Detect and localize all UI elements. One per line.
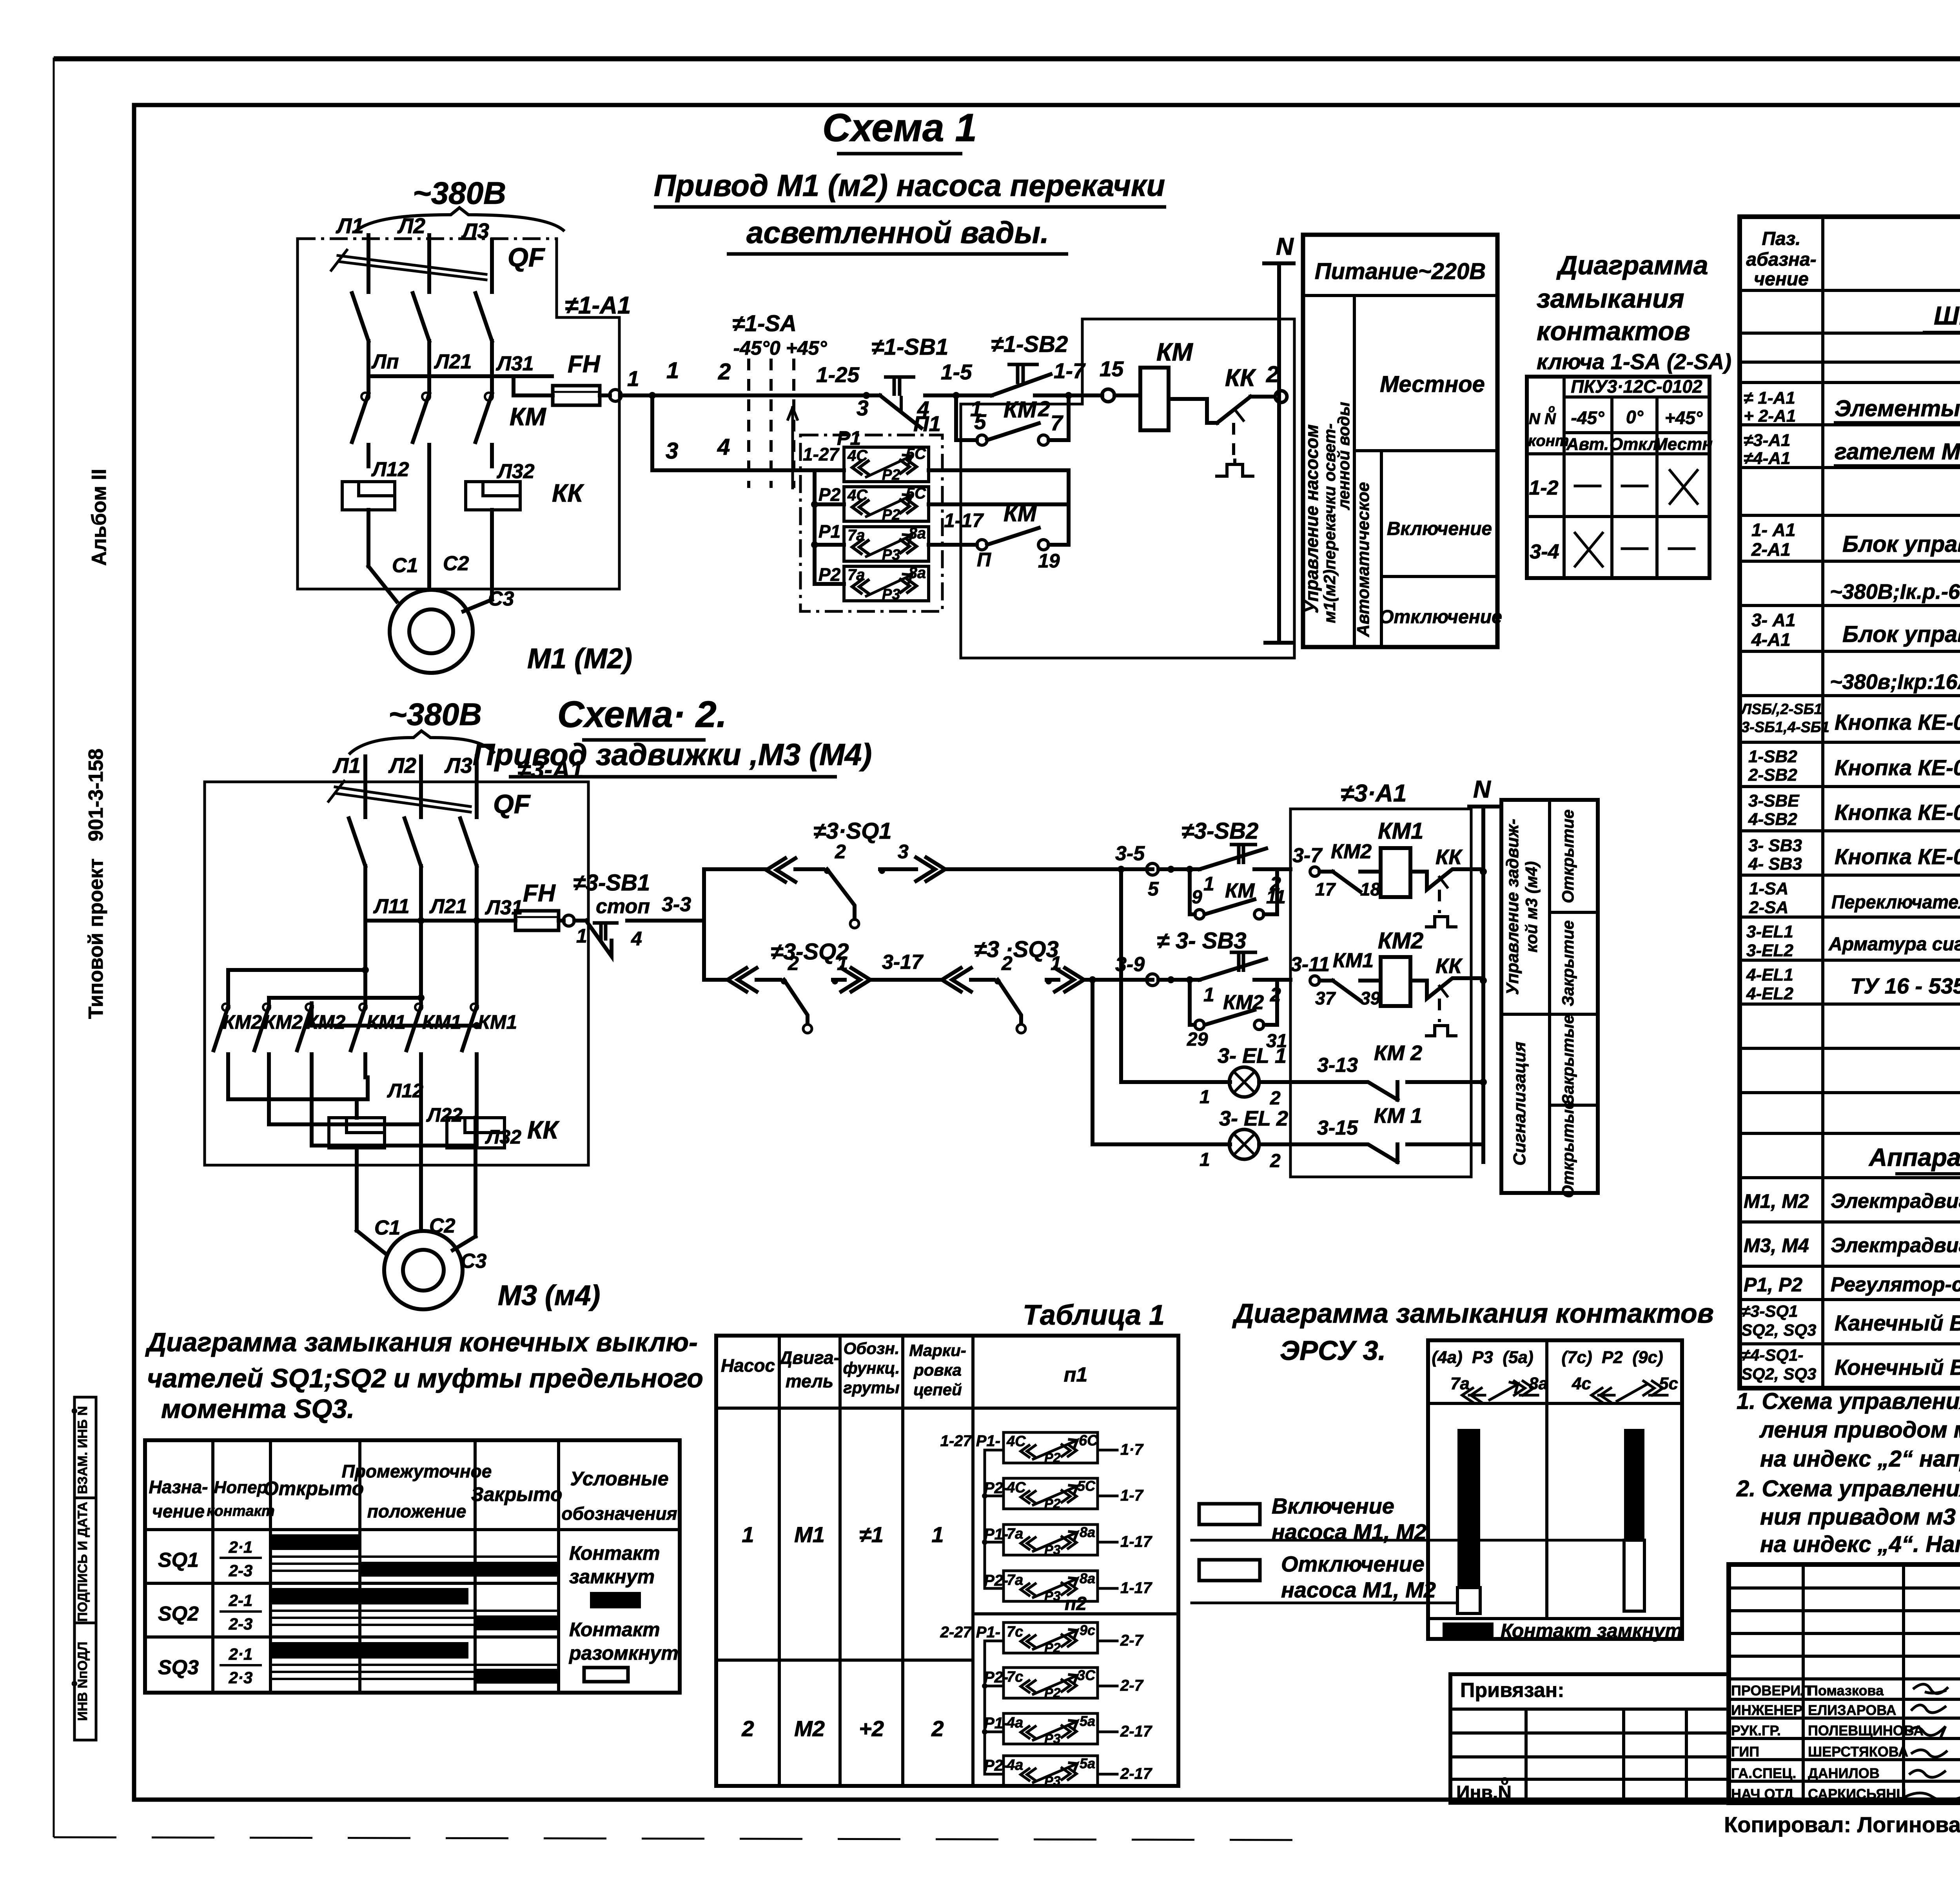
svg-text:1: 1 (576, 925, 587, 947)
svg-text:Л1: Л1 (336, 214, 364, 238)
signatures (squiggles) (1905, 1684, 1960, 1800)
svg-text:контакт: контакт (207, 1503, 274, 1519)
svg-text:ленной воды: ленной воды (1334, 402, 1353, 510)
row: limit switch 4 (1741, 1346, 1960, 1383)
svg-text:на индекс „2“ например: 1·25 н: на индекс „2“ например: 1·25 на 2·25. (1760, 1446, 1960, 1472)
svg-text:19: 19 (1038, 550, 1060, 572)
Table1 P1 contact row3 (984, 1524, 1152, 1557)
svg-text:3-11: 3-11 (1290, 953, 1330, 976)
svg-text:Р2: Р2 (818, 564, 841, 585)
svg-text:ШЕРСТЯКОВА: ШЕРСТЯКОВА (1808, 1744, 1908, 1760)
svg-text:FН: FН (568, 351, 601, 378)
svg-text:на индекс „4“. Например: „3-5“: на индекс „4“. Например: „3-5“ на „4-5.“ (1760, 1532, 1960, 1557)
svg-text:ТУ 16 - 535 - 681- 76: ТУ 16 - 535 - 681- 76 (1850, 973, 1960, 998)
svg-text:(7с) Р2 (9с): (7с) Р2 (9с) (1561, 1348, 1663, 1367)
svg-text:Р1: Р1 (818, 521, 840, 542)
bus with labels Lp L21 L31 (368, 350, 552, 376)
svg-text:1-17: 1-17 (1120, 1579, 1152, 1597)
svg-text:1: 1 (1203, 984, 1214, 1006)
svg-text:3С: 3С (1077, 1667, 1096, 1683)
svg-text:3-4: 3-4 (1530, 540, 1559, 563)
contactor KM1 contacts (power, forward) (351, 1004, 517, 1077)
Schema 1 title (654, 106, 1166, 254)
svg-text:М1, М2: М1, М2 (1744, 1190, 1809, 1212)
svg-text:≠1-SА: ≠1-SА (732, 311, 797, 336)
svg-text:Р2: Р2 (818, 484, 841, 505)
terminal 15 (1072, 357, 1124, 402)
svg-text:цепей: цепей (913, 1380, 962, 1399)
svg-text:ЭРСУ 3.: ЭРСУ 3. (1280, 1335, 1386, 1366)
motor M3(M4) (357, 1148, 600, 1311)
svg-text:1-17: 1-17 (1120, 1533, 1152, 1550)
contactor coil KM2 (1378, 928, 1423, 1006)
svg-text:≠3-SВ1: ≠3-SВ1 (573, 870, 650, 896)
svg-text:2-17: 2-17 (1120, 1723, 1152, 1740)
svg-text:~380В: ~380В (388, 697, 482, 732)
svg-text:М2: М2 (794, 1716, 825, 1741)
svg-text:КК: КК (552, 479, 584, 507)
signal lamp 3-EL1 (1118, 866, 1358, 1109)
svg-text:2·1: 2·1 (229, 1645, 253, 1663)
svg-text:Блок управления РБУ 5101-13Б2Г: Блок управления РБУ 5101-13Б2Г (1842, 531, 1960, 557)
svg-text:QF: QF (508, 243, 545, 272)
svg-text:Л1: Л1 (332, 753, 361, 778)
svg-text:Л2: Л2 (397, 214, 426, 238)
svg-text:Закрытие: Закрытие (1559, 920, 1577, 1006)
svg-text:Элементы управления электрадви: Элементы управления электрадви- (1835, 396, 1960, 421)
svg-text:≠3·SQ1: ≠3·SQ1 (813, 818, 891, 844)
thermal relay KK heaters s2 (329, 1116, 559, 1148)
P1 left bus wire (800, 470, 844, 584)
thermal contact KK (s2 top) (1410, 845, 1483, 927)
contactor KM main contacts (352, 378, 546, 466)
svg-text:≠1-SВ1: ≠1-SВ1 (871, 334, 948, 360)
svg-text:асветленной вады.: асветленной вады. (746, 215, 1049, 250)
svg-text:Марки-: Марки- (909, 1341, 966, 1360)
svg-text:КМ 1: КМ 1 (1374, 1104, 1422, 1128)
limit switch diagram table (145, 1440, 680, 1693)
svg-text:Л3: Л3 (444, 753, 472, 778)
svg-text:2: 2 (1266, 362, 1279, 387)
svg-text:8а: 8а (1080, 1570, 1095, 1586)
svg-text:Местн: Местн (1653, 435, 1713, 454)
kopiroval / format (1724, 1812, 1960, 1847)
svg-text:7с: 7с (1007, 1624, 1023, 1640)
svg-text:3-SВЕ: 3-SВЕ (1748, 791, 1800, 810)
svg-text:Р3: Р3 (1044, 1774, 1061, 1789)
branch to KM2 coil (1290, 949, 1381, 1008)
svg-text:Л2: Л2 (388, 753, 417, 778)
neutral line N schema2 (1469, 776, 1497, 1162)
svg-text:Насос: Насос (721, 1355, 775, 1376)
svg-text:Кнопка КЕ-011У3 Исп.24,ТУ16-52: Кнопка КЕ-011У3 Исп.24,ТУ16-526.407-76 (1835, 755, 1960, 780)
node L3 s2 (444, 753, 477, 780)
svg-text:1: 1 (1200, 1149, 1210, 1170)
svg-text:Р2: Р2 (1044, 1450, 1061, 1465)
svg-text:ровка: ровка (913, 1361, 962, 1379)
thermal contact KK (s2 bottom) (1410, 954, 1483, 1036)
node L2 (397, 214, 429, 259)
svg-text:≠ 3- SВ3: ≠ 3- SВ3 (1157, 928, 1246, 954)
svg-text:Диаграмма: Диаграмма (1556, 250, 1708, 280)
row: regulator ERSU (1744, 1271, 1960, 1296)
svg-text:1: 1 (837, 952, 848, 974)
svg-text:ГИП: ГИП (1731, 1744, 1759, 1760)
svg-text:8а: 8а (1080, 1524, 1095, 1540)
svg-text:КК: КК (1225, 364, 1256, 392)
Table1 P2 contact row3 (984, 1713, 1152, 1746)
svg-text:С3: С3 (461, 1250, 487, 1273)
svg-text:чение: чение (1754, 269, 1809, 290)
svg-text:Кнопка КЕ-011У3 Исп.23,ТУ16-52: Кнопка КЕ-011У3 Исп.23,ТУ16-526.407-76 (1835, 710, 1960, 734)
svg-text:2·1: 2·1 (229, 1538, 253, 1556)
svg-text:КМ2: КМ2 (263, 1011, 303, 1033)
svg-text:(4а) Р3 (5а): (4а) Р3 (5а) (1432, 1348, 1533, 1367)
legend open contact (568, 1619, 679, 1682)
svg-text:SQ3: SQ3 (158, 1656, 199, 1679)
svg-text:Р3: Р3 (882, 547, 900, 563)
start button 3-SB2 (1181, 818, 1290, 895)
svg-text:РУК.ГР.: РУК.ГР. (1731, 1722, 1781, 1738)
svg-text:1-17: 1-17 (944, 509, 984, 531)
svg-text:SQ2, SQ3: SQ2, SQ3 (1741, 1321, 1816, 1340)
svg-text:Л21: Л21 (429, 895, 467, 918)
svg-text:момента SQ3.: момента SQ3. (161, 1394, 354, 1424)
svg-text:Открытие: Открытие (1559, 809, 1577, 903)
svg-text:КК: КК (1436, 845, 1463, 869)
branch to KM1 coil (1292, 840, 1381, 899)
svg-text:Кнопка КЕ-011У3 Исп.27, ТУ16-5: Кнопка КЕ-011У3 Исп.27, ТУ16-526.407-76 (1835, 800, 1960, 825)
row: RBU 5401 block (1751, 610, 1960, 650)
svg-text:ИНЖЕНЕР: ИНЖЕНЕР (1731, 1702, 1802, 1718)
svg-text:Контакт замкнут: Контакт замкнут (1501, 1620, 1682, 1642)
svg-text:SQ2, SQ3: SQ2, SQ3 (1741, 1365, 1816, 1383)
svg-text:Привод М1 (м2) насоса перекачк: Привод М1 (м2) насоса перекачки (654, 168, 1165, 203)
svg-text:≠4-SQ1-: ≠4-SQ1- (1741, 1346, 1803, 1365)
svg-text:Л12: Л12 (387, 1080, 423, 1102)
svg-text:3: 3 (666, 438, 678, 464)
signal lamp 3-EL2 (1089, 976, 1358, 1171)
svg-text:3-17: 3-17 (882, 951, 924, 973)
svg-text:2: 2 (931, 1716, 944, 1741)
svg-text:2-SВ2: 2-SВ2 (1748, 765, 1797, 785)
svg-text:Диаграмма замыкания конечных в: Диаграмма замыкания конечных выклю- (145, 1327, 698, 1357)
notes text (1736, 1389, 1960, 1557)
svg-text:Условные: Условные (570, 1468, 668, 1490)
limit switch 3-SQ2 (728, 939, 942, 1033)
svg-text:груты: груты (843, 1378, 900, 1397)
svg-text:-45°0 +45°: -45°0 +45° (733, 337, 828, 359)
svg-text:КК: КК (527, 1116, 559, 1144)
svg-text:КМ: КМ (1156, 338, 1193, 366)
fuse FH s2 (515, 880, 574, 930)
Table1 P1 contact row1 (940, 1432, 1144, 1465)
node 3-5 (1115, 842, 1200, 900)
neutral line N schema1 (1264, 233, 1294, 643)
svg-text:ключа 1-SА (2-SА): ключа 1-SА (2-SА) (1537, 349, 1731, 374)
svg-text:3-7: 3-7 (1292, 844, 1323, 867)
A1 block outline (control) (961, 319, 1294, 658)
svg-text:+2: +2 (859, 1716, 884, 1741)
row: button 28 (1748, 836, 1960, 874)
svg-text:17: 17 (1315, 879, 1336, 899)
ERSU left cell header P3 (1428, 1348, 1548, 1403)
svg-text:1: 1 (931, 1522, 944, 1547)
svg-text:3: 3 (898, 841, 909, 863)
svg-text:Л12: Л12 (371, 458, 409, 481)
svg-text:2-3: 2-3 (229, 1561, 253, 1580)
node L1 (336, 214, 368, 259)
SQ3 row (158, 1642, 559, 1687)
svg-text:2: 2 (788, 952, 799, 974)
svg-text:1: 1 (1203, 873, 1214, 895)
svg-text:кой м3 (м4): кой м3 (м4) (1522, 861, 1541, 953)
svg-text:ления приводом м1 с заменой ин: ления приводом м1 с заменой индекса „1“в… (1759, 1417, 1960, 1443)
svg-text:Паз.: Паз. (1762, 228, 1800, 249)
svg-text:Л22: Л22 (426, 1104, 463, 1126)
contactor KM2 contacts (power, reverse) (214, 970, 345, 1077)
svg-text:Двига-: Двига- (778, 1347, 840, 1368)
svg-text:КМ1: КМ1 (1333, 949, 1374, 972)
svg-text:КМ1: КМ1 (1378, 818, 1423, 844)
svg-text:КМ1: КМ1 (422, 1011, 461, 1033)
title block outer (1729, 1564, 1960, 1803)
P1 contact row 2 (P2 4C-5C) (818, 484, 929, 523)
svg-text:5С: 5С (1077, 1478, 1096, 1494)
svg-text:2-17: 2-17 (1120, 1765, 1152, 1782)
svg-text:3-15: 3-15 (1317, 1117, 1358, 1139)
svg-text:Местное: Местное (1380, 372, 1485, 397)
svg-text:КМ 2: КМ 2 (1374, 1041, 1422, 1065)
svg-text:QF: QF (493, 789, 531, 819)
svg-text:37: 37 (1315, 988, 1336, 1008)
svg-text:≠4-А1: ≠4-А1 (1744, 449, 1791, 468)
svg-text:стоп: стоп (596, 895, 650, 918)
svg-text:4-ЕL1: 4-ЕL1 (1746, 965, 1793, 984)
svg-text:≠1-А1: ≠1-А1 (565, 292, 631, 319)
svg-text:Альбом II: Альбом II (88, 469, 111, 566)
svg-text:4с: 4с (1572, 1374, 1591, 1393)
Table1 P1 left bus (982, 1450, 1004, 1588)
node 1-5 (941, 360, 982, 421)
svg-text:Схема 1: Схема 1 (822, 106, 977, 150)
svg-text:1-5: 1-5 (941, 360, 973, 384)
cabinet outline 3-A1 power block (205, 756, 588, 1165)
svg-text:Л32: Л32 (496, 460, 535, 483)
circuit breaker QF (331, 243, 545, 341)
svg-text:2-27 Р1-: 2-27 Р1- (940, 1624, 1000, 1641)
svg-text:~380В;Iк.р.-60А; Iн.э-50А: ~380В;Iк.р.-60А; Iн.э-50А (1830, 580, 1960, 604)
svg-text:2: 2 (1001, 952, 1013, 974)
svg-text:4а: 4а (1006, 1715, 1023, 1731)
P1 relay box (dash-dot) (800, 412, 942, 611)
svg-text:М1 (М2): М1 (М2) (527, 643, 632, 674)
margin label Album II (rotated) (88, 469, 111, 566)
svg-text:КК: КК (1436, 954, 1463, 978)
svg-text:ПОДПИСЬ И ДАТА: ПОДПИСЬ И ДАТА (75, 1502, 90, 1622)
svg-text:2-3: 2-3 (229, 1615, 253, 1633)
node 3-9 (1115, 953, 1200, 986)
P1 contact row 1 (P2 4C-6C) (803, 444, 929, 483)
svg-text:39: 39 (1360, 988, 1381, 1008)
svg-text:Конечный Выключатель: Конечный Выключатель (1835, 1355, 1960, 1380)
ERSU right cell header P2 (1547, 1348, 1682, 1403)
bus wires s2 (365, 866, 523, 1003)
svg-text:0°: 0° (1626, 407, 1644, 427)
row: button stop (1740, 701, 1960, 736)
self hold KM (s2 top) (1186, 866, 1286, 919)
start button 3-SB3 (1157, 928, 1290, 1006)
power supply table schema1 (1301, 235, 1502, 647)
svg-text:4а: 4а (1006, 1757, 1023, 1773)
svg-text:Аппаратура по месту: Аппаратура по месту (1868, 1143, 1960, 1171)
svg-text:М3, М4: М3, М4 (1744, 1235, 1809, 1256)
svg-text:ПРОВЕРИЛ: ПРОВЕРИЛ (1731, 1682, 1811, 1699)
svg-text:1: 1 (666, 358, 679, 383)
svg-text:Шкаф 1Ш: Шкаф 1Ш (1934, 301, 1960, 330)
fuse FH (514, 351, 639, 405)
node L3 (461, 219, 492, 259)
svg-text:4- SВ3: 4- SВ3 (1748, 854, 1802, 874)
node L1 s2 (332, 753, 365, 780)
svg-text:КМ: КМ (1225, 879, 1255, 902)
P1 contact row 3 (P3 7a-8a) (818, 521, 929, 563)
P1 contact row 4 (P3 7a-8a) (818, 564, 929, 603)
row: cabinet 1Sh (1923, 301, 1960, 332)
svg-text:Канечный Выключатель: Канечный Выключатель (1835, 1311, 1960, 1335)
svg-text:С2: С2 (443, 552, 469, 575)
svg-text:КМ2: КМ2 (1378, 928, 1423, 954)
wire 3-3 junction (662, 869, 766, 980)
row: button 27 (1748, 791, 1960, 829)
privyazan box (1450, 1674, 1729, 1803)
svg-text:5а: 5а (1080, 1713, 1095, 1729)
svg-text:КМ2: КМ2 (306, 1011, 345, 1033)
thermal relay KK heaters (342, 458, 584, 510)
svg-text:1-27 Р1-: 1-27 Р1- (940, 1432, 1000, 1450)
svg-text:7а: 7а (1007, 1572, 1023, 1588)
reverse bridging wires (228, 966, 480, 1029)
svg-text:САРКИСЬЯНЦ: САРКИСЬЯНЦ (1808, 1786, 1907, 1802)
wire node 1 / drop to wire 3 (621, 358, 737, 470)
Table1 P2 contact row2 (984, 1667, 1144, 1700)
svg-text:ЛSБ/,2-SБ1: ЛSБ/,2-SБ1 (1740, 701, 1822, 718)
svg-text:чателей SQ1;SQ2 и муфты предел: чателей SQ1;SQ2 и муфты предельного (147, 1363, 703, 1393)
wire QF to bus (368, 341, 492, 376)
svg-text:≠ 1-А1: ≠ 1-А1 (1744, 388, 1795, 408)
net ~380V label schema1 (355, 176, 564, 232)
svg-text:Нопер: Нопер (214, 1478, 268, 1497)
svg-text:ния привадом м3 с заменой инде: ния привадом м3 с заменой индекса „3“ в … (1760, 1504, 1960, 1530)
svg-text:Управление задвиж-: Управление задвиж- (1503, 819, 1522, 995)
svg-text:Р2: Р2 (882, 507, 900, 523)
legend on-off pump (1192, 1494, 1624, 1603)
svg-text:≠1-SВ2: ≠1-SВ2 (991, 332, 1068, 357)
svg-text:1. Схема управления привадом М: 1. Схема управления привадом М2 аналогич… (1737, 1389, 1960, 1414)
selector switch 1-SA dashed columns (732, 311, 866, 488)
terminal 2 to N (1266, 362, 1287, 402)
svg-text:Р2: Р2 (1044, 1496, 1061, 1511)
svg-text:Схема· 2.: Схема· 2. (557, 694, 727, 735)
svg-text:≠3·А1: ≠3·А1 (1341, 780, 1406, 807)
svg-text:4: 4 (717, 434, 730, 460)
row: RBU 5101 data (1830, 566, 1960, 605)
svg-text:≠1: ≠1 (859, 1522, 884, 1547)
svg-text:4С: 4С (1006, 1479, 1026, 1496)
Table1 P2 left bus (982, 1641, 1004, 1774)
row: elements of control 2 (1744, 431, 1960, 468)
svg-text:Типовой проект 901-3-158: Типовой проект 901-3-158 (85, 749, 107, 1019)
svg-text:3-SБ1,4-SБ1: 3-SБ1,4-SБ1 (1741, 719, 1829, 736)
svg-text:С1: С1 (392, 554, 418, 577)
svg-text:Р2: Р2 (1044, 1686, 1061, 1700)
Table 1 heading (1023, 1300, 1165, 1331)
A1 control block outline s2 (1290, 780, 1471, 1177)
svg-text:ДАНИЛОВ: ДАНИЛОВ (1808, 1765, 1880, 1781)
svg-text:Р1, Р2: Р1, Р2 (1744, 1274, 1802, 1296)
svg-text:КМ2: КМ2 (1223, 991, 1264, 1014)
Table1 row pump2 (741, 1593, 1087, 1741)
svg-text:п1: п1 (1064, 1363, 1088, 1386)
svg-text:2. Схема управления привадом М: 2. Схема управления привадом МЧ аналогич… (1736, 1476, 1960, 1501)
svg-text:функц.: функц. (843, 1359, 900, 1377)
svg-text:2-7: 2-7 (1120, 1677, 1144, 1694)
row: motor M3 M4 (1744, 1232, 1960, 1257)
svg-text:≠3-А1: ≠3-А1 (1744, 431, 1791, 450)
phase merge wires L12 L22 L32 (228, 1077, 521, 1231)
svg-text:+ 2-А1: + 2-А1 (1744, 406, 1796, 426)
svg-text:2: 2 (1270, 1088, 1281, 1109)
svg-text:11: 11 (1266, 887, 1286, 908)
svg-text:~380в;Iкр:16А;Iн.э-10А;: ~380в;Iкр:16А;Iн.э-10А; (1830, 670, 1960, 694)
Table1 P2 contact row1 (940, 1622, 1144, 1655)
auto contact KM 1-17 (929, 501, 1069, 572)
net ~380V label schema2 (349, 697, 495, 754)
svg-text:3- ЕL 1: 3- ЕL 1 (1218, 1044, 1287, 1068)
svg-text:чение: чение (152, 1501, 205, 1521)
SA contact table (1527, 376, 1713, 578)
svg-text:9с: 9с (1080, 1622, 1095, 1638)
svg-text:18: 18 (1360, 879, 1381, 899)
svg-text:С2: С2 (429, 1215, 456, 1237)
svg-text:ЭлектрадвигательА2-71-4;~380В;: ЭлектрадвигательА2-71-4;~380В; 22кВт (1831, 1190, 1960, 1213)
SQ1 row (158, 1534, 559, 1580)
svg-text:положение: положение (367, 1501, 466, 1521)
svg-text:Авт.: Авт. (1566, 435, 1609, 454)
svg-text:2-7: 2-7 (1120, 1632, 1144, 1649)
svg-text:Блок управления РБУ5401-03А2Р: Блок управления РБУ5401-03А2Р (1842, 622, 1960, 647)
row: local apparatus section (1868, 1143, 1960, 1174)
svg-text:П: П (977, 549, 991, 571)
P1 row output wires (929, 470, 1069, 504)
svg-text:1: 1 (1051, 952, 1062, 974)
svg-text:2: 2 (1038, 397, 1050, 421)
svg-text:7а: 7а (1007, 1526, 1023, 1542)
svg-text:8а: 8а (1529, 1374, 1548, 1393)
motor M1(M2) (368, 466, 632, 674)
svg-text:ГА.СПЕЦ.: ГА.СПЕЦ. (1731, 1765, 1796, 1781)
svg-text:разомкнут: разомкнут (568, 1642, 679, 1664)
svg-text:3- А1: 3- А1 (1751, 610, 1795, 630)
svg-text:2-А1: 2-А1 (1751, 539, 1791, 560)
svg-text:Отключение: Отключение (1379, 607, 1502, 627)
svg-text:≠3-SQ1: ≠3-SQ1 (1741, 1302, 1798, 1321)
svg-text:3- SВ3: 3- SВ3 (1748, 836, 1802, 855)
svg-text:ЕЛИЗАРОВА: ЕЛИЗАРОВА (1808, 1702, 1896, 1718)
svg-text:9: 9 (1192, 887, 1202, 908)
svg-text:Питание~220В: Питание~220В (1315, 259, 1486, 284)
row: button start (1748, 747, 1960, 785)
